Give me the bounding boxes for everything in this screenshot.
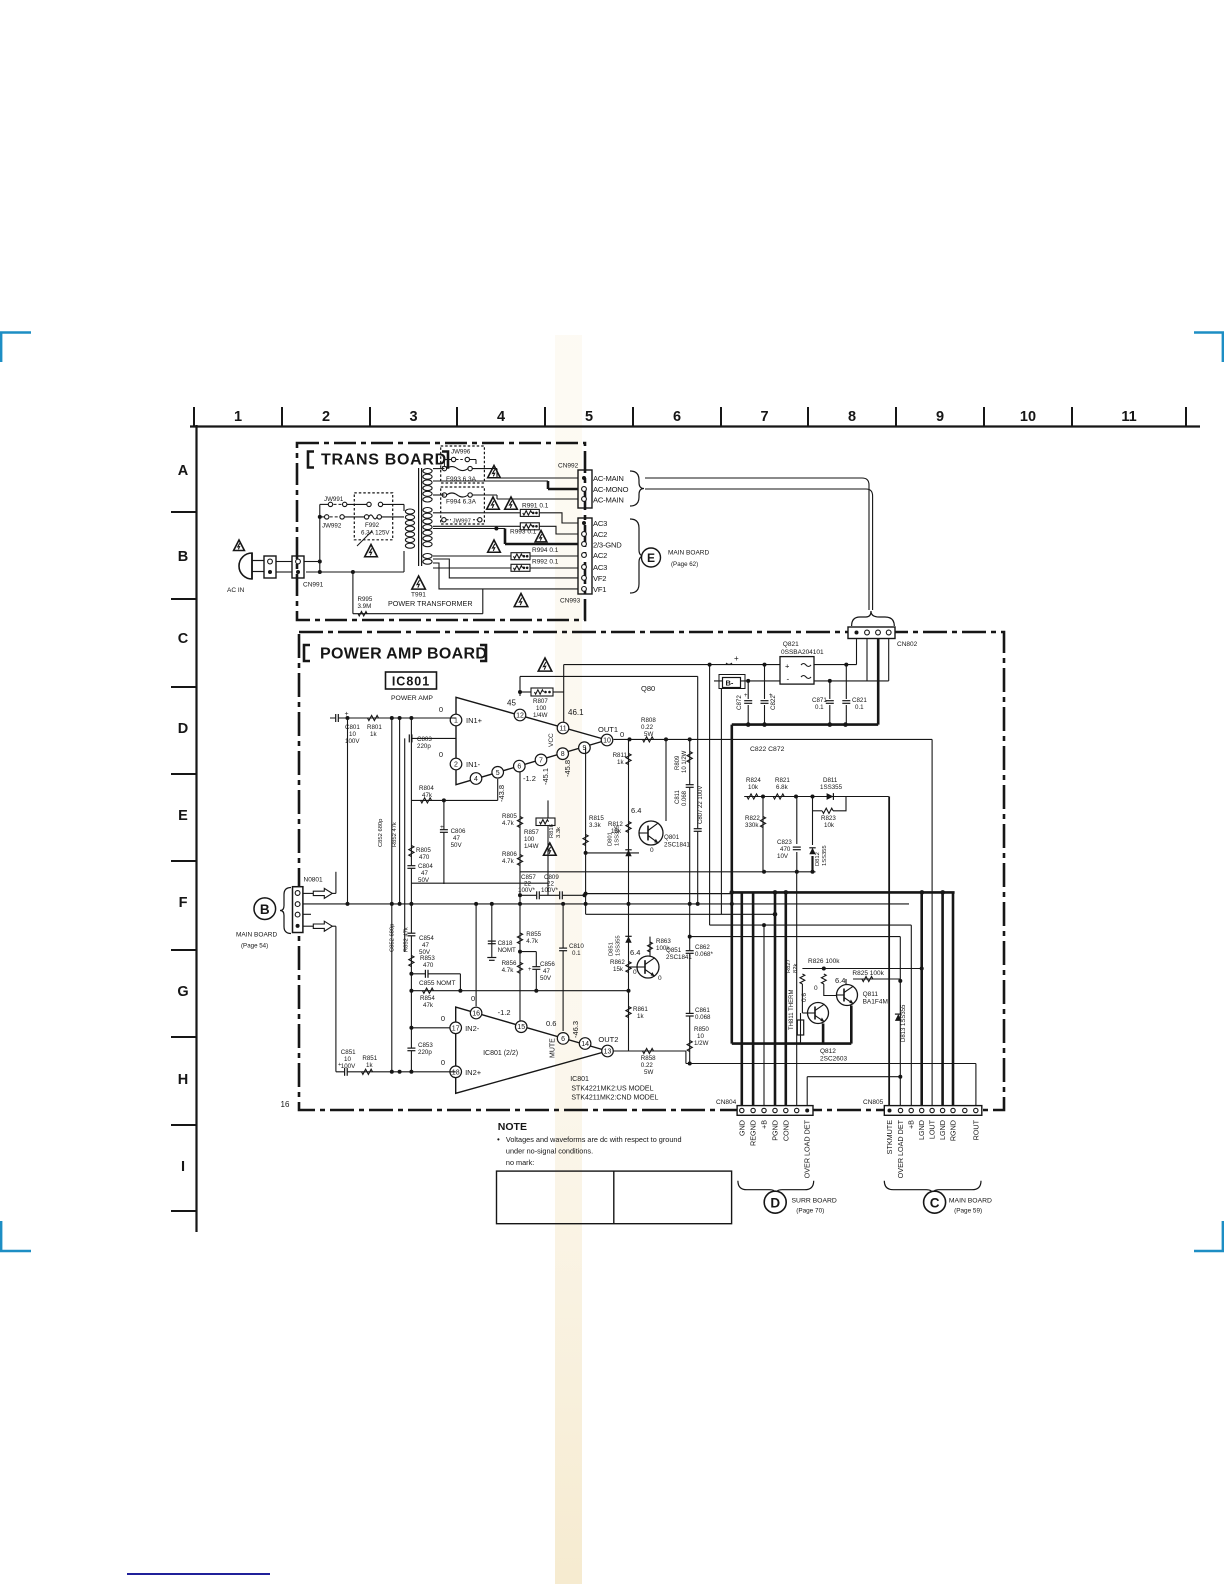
svg-text:C822 C872: C822 C872 (750, 746, 785, 753)
svg-text:4.7k: 4.7k (502, 967, 515, 974)
svg-text:C823: C823 (777, 839, 792, 846)
svg-text:46.1: 46.1 (568, 708, 584, 717)
svg-text:50V: 50V (540, 975, 552, 982)
svg-text:47: 47 (422, 942, 429, 949)
svg-text:2SC1841: 2SC1841 (664, 842, 690, 849)
svg-text:470: 470 (780, 846, 791, 853)
svg-text:4: 4 (474, 776, 478, 783)
svg-text:0.6: 0.6 (546, 1019, 556, 1028)
svg-text:JW991: JW991 (324, 496, 344, 503)
svg-text:JW992: JW992 (322, 523, 342, 530)
svg-text:R852 47k: R852 47k (392, 822, 398, 847)
svg-text:0.6: 0.6 (801, 993, 808, 1002)
svg-text:0.1: 0.1 (855, 704, 864, 711)
svg-text:10: 10 (603, 738, 611, 745)
svg-text:+: + (744, 693, 748, 699)
svg-text:45: 45 (507, 699, 516, 708)
svg-text:(Page 70): (Page 70) (796, 1208, 824, 1215)
svg-text:R811: R811 (613, 752, 628, 759)
svg-text:10: 10 (349, 731, 356, 738)
svg-text:SURR BOARD: SURR BOARD (792, 1197, 837, 1204)
svg-text:0: 0 (658, 975, 662, 982)
svg-text:R993 0.1: R993 0.1 (510, 529, 537, 536)
svg-text:LGND: LGND (938, 1120, 947, 1140)
svg-text:1SS355: 1SS355 (615, 825, 621, 846)
svg-text:AC3: AC3 (593, 519, 607, 528)
svg-text:1/4W: 1/4W (533, 712, 548, 719)
svg-text:R806: R806 (502, 851, 517, 858)
svg-text:100: 100 (524, 836, 535, 843)
svg-text:5W: 5W (644, 731, 653, 738)
svg-text:VCC: VCC (548, 733, 555, 747)
svg-text:5W: 5W (644, 1069, 653, 1076)
svg-text:10: 10 (1020, 409, 1036, 425)
svg-text:G: G (177, 984, 188, 1000)
svg-text:82k: 82k (793, 964, 799, 973)
svg-text:1k: 1k (370, 731, 377, 738)
svg-text:5: 5 (496, 770, 500, 777)
svg-text:C: C (178, 631, 189, 647)
svg-text:3.3k: 3.3k (556, 827, 562, 838)
svg-text:R809: R809 (675, 755, 681, 770)
svg-text:PGND: PGND (771, 1120, 780, 1141)
svg-text:4.7k: 4.7k (502, 820, 515, 827)
svg-text:Voltages and waveforms are dc: Voltages and waveforms are dc with respe… (506, 1135, 682, 1144)
svg-text:R857: R857 (524, 829, 539, 836)
svg-text:4.7k: 4.7k (526, 938, 539, 945)
svg-text:CN992: CN992 (558, 463, 579, 470)
svg-text:IC801 (2/2): IC801 (2/2) (483, 1050, 518, 1057)
svg-text:0: 0 (441, 1014, 445, 1023)
svg-text:C852 680p: C852 680p (390, 924, 396, 952)
svg-text:C807 22 100V: C807 22 100V (698, 786, 704, 824)
svg-text:14: 14 (581, 1041, 589, 1048)
svg-text:JW996: JW996 (451, 449, 471, 456)
svg-text:-1.2: -1.2 (498, 1008, 511, 1017)
svg-text:-: - (787, 675, 790, 684)
svg-text:50V: 50V (451, 842, 463, 849)
svg-text:470: 470 (419, 854, 430, 861)
svg-text:R823: R823 (821, 815, 836, 822)
svg-text:D: D (178, 721, 188, 737)
svg-text:IC801: IC801 (392, 675, 430, 689)
svg-text:12: 12 (516, 713, 524, 720)
svg-text:T991: T991 (411, 592, 426, 599)
svg-text:1: 1 (234, 409, 242, 425)
svg-text:C803: C803 (417, 736, 432, 743)
svg-text:E: E (178, 808, 188, 824)
svg-text:C862: C862 (695, 944, 710, 951)
svg-text:1: 1 (454, 718, 458, 725)
svg-text:R805: R805 (416, 847, 431, 854)
svg-text:5: 5 (585, 409, 593, 425)
svg-text:I: I (181, 1159, 185, 1175)
svg-text:C853: C853 (418, 1042, 433, 1049)
svg-text:B: B (178, 549, 188, 565)
svg-text:+: + (528, 967, 532, 973)
svg-text:R815: R815 (589, 815, 604, 822)
svg-text:N0801: N0801 (304, 877, 324, 884)
svg-text:POWER AMP: POWER AMP (391, 695, 433, 702)
svg-text:1SS355: 1SS355 (616, 935, 622, 956)
svg-text:1/2W: 1/2W (694, 1040, 709, 1047)
svg-text:R801: R801 (367, 724, 382, 731)
svg-text:MAIN BOARD: MAIN BOARD (949, 1197, 992, 1204)
svg-text:C852 680p: C852 680p (378, 819, 384, 847)
svg-text:R850: R850 (694, 1026, 709, 1033)
svg-text:0SSBA204101: 0SSBA204101 (781, 649, 824, 656)
svg-text:C811: C811 (675, 789, 681, 804)
svg-text:470: 470 (423, 962, 434, 969)
svg-text:10: 10 (344, 1056, 351, 1063)
svg-text:D811: D811 (823, 777, 838, 784)
svg-text:+: + (338, 1062, 341, 1068)
svg-text:Q821: Q821 (783, 641, 799, 648)
svg-text:-46.3: -46.3 (571, 1021, 580, 1038)
svg-text:330k: 330k (745, 822, 759, 829)
svg-text:POWER AMP BOARD: POWER AMP BOARD (320, 646, 487, 663)
svg-text:R854: R854 (420, 995, 435, 1002)
svg-text:COND: COND (781, 1120, 790, 1141)
svg-text:-1.2: -1.2 (523, 774, 536, 783)
svg-text:MUTE: MUTE (550, 1038, 557, 1058)
svg-text:AC-MAIN: AC-MAIN (593, 474, 624, 483)
svg-text:11: 11 (559, 726, 566, 733)
svg-text:C818: C818 (498, 940, 513, 947)
svg-text:F993 6.3A: F993 6.3A (446, 476, 477, 483)
svg-text:47: 47 (453, 835, 460, 842)
svg-text:C821: C821 (852, 697, 867, 704)
svg-text:3.9M: 3.9M (358, 603, 372, 610)
svg-text:2SC2603: 2SC2603 (820, 1056, 847, 1063)
svg-text:2SC1841: 2SC1841 (666, 954, 692, 961)
svg-text:B-: B- (726, 679, 734, 688)
svg-text:0: 0 (439, 750, 443, 759)
svg-text:R995: R995 (358, 596, 373, 603)
svg-text:AC IN: AC IN (227, 587, 245, 594)
svg-text:R825 100k: R825 100k (852, 970, 884, 977)
svg-text:CN805: CN805 (863, 1099, 884, 1106)
svg-text:2/3-GND: 2/3-GND (593, 541, 622, 550)
svg-text:OVER LOAD DET: OVER LOAD DET (896, 1119, 905, 1178)
svg-text:POWER TRANSFORMER: POWER TRANSFORMER (388, 599, 473, 608)
svg-text:-45.1: -45.1 (541, 768, 550, 785)
svg-text:R852 47k: R852 47k (404, 927, 410, 952)
svg-text:R822: R822 (745, 815, 760, 822)
svg-text:0.22: 0.22 (641, 724, 654, 731)
svg-text:15k: 15k (613, 966, 624, 973)
svg-text:R855: R855 (526, 931, 541, 938)
svg-text:STK4211MK2:CND MODEL: STK4211MK2:CND MODEL (571, 1095, 658, 1102)
svg-text:H: H (178, 1072, 188, 1088)
svg-text:Q812: Q812 (820, 1048, 836, 1055)
svg-text:VF2: VF2 (593, 574, 606, 583)
svg-text:R804: R804 (419, 785, 434, 792)
svg-text:OVER LOAD DET: OVER LOAD DET (803, 1119, 812, 1178)
svg-text:LOUT: LOUT (928, 1119, 937, 1139)
svg-text:Q811: Q811 (863, 991, 879, 998)
svg-text:9: 9 (936, 409, 944, 425)
svg-text:100V*: 100V* (541, 887, 558, 894)
svg-text:AC3: AC3 (593, 563, 607, 572)
svg-text:+: + (440, 824, 444, 831)
svg-text:C804: C804 (418, 863, 433, 870)
svg-text:0.068*: 0.068* (695, 951, 713, 958)
svg-text:A: A (178, 463, 189, 479)
svg-text:1k: 1k (637, 1013, 644, 1020)
svg-text:+: + (734, 654, 739, 663)
svg-text:REGND: REGND (749, 1120, 758, 1146)
svg-text:LGND: LGND (917, 1120, 926, 1140)
svg-text:10k: 10k (748, 784, 759, 791)
svg-text:7: 7 (760, 409, 768, 425)
svg-text:100k: 100k (656, 945, 670, 952)
svg-text:10k: 10k (824, 822, 835, 829)
svg-text:10: 10 (697, 1033, 704, 1040)
svg-text:C810: C810 (569, 943, 584, 950)
svg-text:IN2+: IN2+ (465, 1068, 482, 1077)
svg-text:C806: C806 (451, 828, 466, 835)
svg-text:+B: +B (760, 1120, 769, 1129)
svg-text:GND: GND (737, 1120, 746, 1136)
svg-text:F994 6.3A: F994 6.3A (446, 499, 477, 506)
svg-text:BA1F4M: BA1F4M (863, 999, 888, 1006)
svg-text:1k: 1k (617, 759, 624, 766)
svg-text:47k: 47k (423, 1002, 434, 1009)
svg-text:VF1: VF1 (593, 585, 606, 594)
svg-text:10 1/2W: 10 1/2W (682, 750, 688, 773)
svg-text:100V: 100V (341, 1063, 356, 1070)
svg-text:R853: R853 (420, 955, 435, 962)
svg-text:C: C (930, 1196, 940, 1211)
svg-text:0: 0 (814, 985, 818, 992)
svg-text:R863: R863 (656, 938, 671, 945)
svg-text:(Page 59): (Page 59) (954, 1208, 982, 1215)
svg-text:6: 6 (561, 1036, 565, 1043)
svg-text:8: 8 (848, 409, 856, 425)
svg-text:R824: R824 (746, 777, 761, 784)
svg-text:R861: R861 (633, 1006, 648, 1013)
svg-text:16: 16 (281, 1100, 290, 1109)
svg-text:1/4W: 1/4W (524, 843, 539, 850)
svg-text:IN2-: IN2- (465, 1024, 480, 1033)
svg-text:8: 8 (561, 751, 565, 758)
svg-text:0: 0 (471, 994, 475, 1003)
svg-text:6: 6 (673, 409, 681, 425)
svg-text:1SS355: 1SS355 (822, 845, 828, 866)
svg-text:TRANS BOARD: TRANS BOARD (321, 452, 447, 469)
svg-text:F992: F992 (365, 522, 380, 529)
svg-text:1k: 1k (366, 1062, 373, 1069)
svg-text:100V*: 100V* (518, 887, 535, 894)
svg-text:6.4: 6.4 (631, 806, 641, 815)
svg-text:0: 0 (441, 1058, 445, 1067)
svg-text:0.068: 0.068 (695, 1014, 711, 1021)
svg-text:under no-signal conditions.: under no-signal conditions. (506, 1147, 593, 1156)
svg-text:17: 17 (452, 1025, 460, 1032)
svg-text:6.8k: 6.8k (776, 784, 789, 791)
svg-text:CN993: CN993 (560, 598, 581, 605)
svg-text:C872: C872 (736, 695, 743, 710)
svg-text:R821: R821 (775, 777, 790, 784)
svg-text:AC-MONO: AC-MONO (593, 485, 629, 494)
svg-text:13: 13 (604, 1049, 612, 1056)
svg-text:D801: D801 (608, 832, 614, 846)
svg-text:0.068: 0.068 (682, 790, 688, 806)
svg-text:0: 0 (620, 730, 624, 739)
svg-text:CN802: CN802 (897, 641, 918, 648)
svg-text:R992 0.1: R992 0.1 (532, 559, 559, 566)
svg-text:OUT2: OUT2 (598, 1035, 618, 1044)
svg-text:R851: R851 (362, 1055, 377, 1062)
svg-text:R862: R862 (610, 959, 625, 966)
svg-text:R816: R816 (549, 824, 555, 838)
svg-text:R808: R808 (641, 717, 656, 724)
svg-text:•: • (497, 1135, 500, 1144)
svg-text:OUT1: OUT1 (598, 725, 618, 734)
svg-text:10V: 10V (777, 853, 789, 860)
svg-text:AC2: AC2 (593, 551, 607, 560)
svg-text:IN1-: IN1- (466, 760, 481, 769)
svg-text:16: 16 (472, 1011, 480, 1018)
svg-text:2: 2 (322, 409, 330, 425)
svg-text:C855 NOMT: C855 NOMT (419, 980, 456, 987)
svg-text:AC2: AC2 (593, 530, 607, 539)
svg-text:47: 47 (543, 968, 550, 975)
svg-text:2: 2 (454, 762, 458, 769)
svg-text:CN991: CN991 (303, 582, 324, 589)
svg-text:STK4221MK2:US MODEL: STK4221MK2:US MODEL (571, 1086, 653, 1093)
svg-text:NOMT: NOMT (498, 947, 516, 954)
svg-text:STKMUTE: STKMUTE (885, 1120, 894, 1155)
svg-text:0: 0 (650, 847, 654, 854)
svg-text:(Page 62): (Page 62) (671, 561, 698, 568)
svg-text:4.7k: 4.7k (502, 858, 515, 865)
svg-text:-43.8: -43.8 (497, 785, 506, 802)
svg-text:15: 15 (517, 1024, 525, 1031)
svg-text:7: 7 (539, 757, 543, 764)
svg-text:100: 100 (536, 705, 547, 712)
svg-text:0.1: 0.1 (815, 704, 824, 711)
svg-text:R858: R858 (641, 1055, 656, 1062)
svg-text:B: B (260, 902, 270, 917)
svg-text:-45.8: -45.8 (563, 760, 572, 777)
svg-text:Q801: Q801 (664, 834, 680, 841)
svg-text:47: 47 (421, 870, 428, 877)
svg-text:IN1+: IN1+ (466, 716, 483, 725)
svg-text:TH811 THERM: TH811 THERM (789, 990, 795, 1030)
svg-text:D812: D812 (815, 852, 821, 866)
svg-text:0.1: 0.1 (572, 950, 581, 957)
svg-text:R807: R807 (533, 698, 548, 705)
svg-text:IC801: IC801 (570, 1076, 589, 1083)
svg-text:C854: C854 (419, 935, 434, 942)
svg-text:3: 3 (409, 409, 417, 425)
svg-text:MAIN BOARD: MAIN BOARD (668, 550, 709, 557)
svg-text:11: 11 (1121, 409, 1136, 425)
svg-text:C861: C861 (695, 1007, 710, 1014)
svg-text:18: 18 (452, 1069, 460, 1076)
svg-text:0: 0 (439, 705, 443, 714)
svg-text:+: + (769, 693, 773, 699)
svg-text:6.4: 6.4 (835, 976, 845, 985)
svg-text:R805: R805 (502, 813, 517, 820)
svg-text:1SS355: 1SS355 (820, 784, 843, 791)
svg-text:C851: C851 (341, 1049, 356, 1056)
svg-text:+: + (785, 662, 790, 671)
svg-text:RGND: RGND (949, 1120, 958, 1141)
svg-text:D851: D851 (609, 942, 615, 956)
svg-text:R856: R856 (502, 960, 517, 967)
svg-text:(Page 54): (Page 54) (241, 943, 268, 950)
svg-text:+B: +B (907, 1120, 916, 1129)
svg-text:6.4: 6.4 (630, 948, 640, 957)
svg-text:F: F (179, 895, 188, 911)
svg-text:220p: 220p (417, 743, 431, 750)
svg-text:6: 6 (517, 764, 521, 771)
svg-text:Q80: Q80 (641, 684, 655, 693)
svg-text:D: D (770, 1196, 780, 1211)
svg-text:CN804: CN804 (716, 1099, 737, 1106)
svg-text:ROUT: ROUT (971, 1119, 980, 1140)
svg-text:0: 0 (633, 969, 637, 976)
svg-text:R994 0.1: R994 0.1 (532, 547, 559, 554)
svg-text:47k: 47k (422, 792, 433, 799)
svg-text:E: E (647, 551, 655, 565)
svg-text:JW997: JW997 (453, 518, 471, 524)
svg-text:R991 0.1: R991 0.1 (522, 502, 549, 509)
svg-text:C856: C856 (540, 961, 555, 968)
svg-text:220p: 220p (418, 1049, 432, 1056)
svg-text:R826 100k: R826 100k (808, 958, 840, 965)
svg-text:no mark:: no mark: (506, 1158, 534, 1167)
svg-text:4: 4 (497, 409, 505, 425)
svg-text:MAIN BOARD: MAIN BOARD (236, 932, 277, 939)
svg-text:3.3k: 3.3k (589, 822, 602, 829)
svg-text:0.22: 0.22 (641, 1062, 654, 1069)
svg-text:AC-MAIN: AC-MAIN (593, 496, 624, 505)
svg-text:C871: C871 (812, 697, 827, 704)
svg-text:6.3A 125V: 6.3A 125V (361, 530, 390, 537)
svg-text:D813 1SS355: D813 1SS355 (901, 1004, 907, 1042)
svg-text:NOTE: NOTE (498, 1121, 527, 1133)
